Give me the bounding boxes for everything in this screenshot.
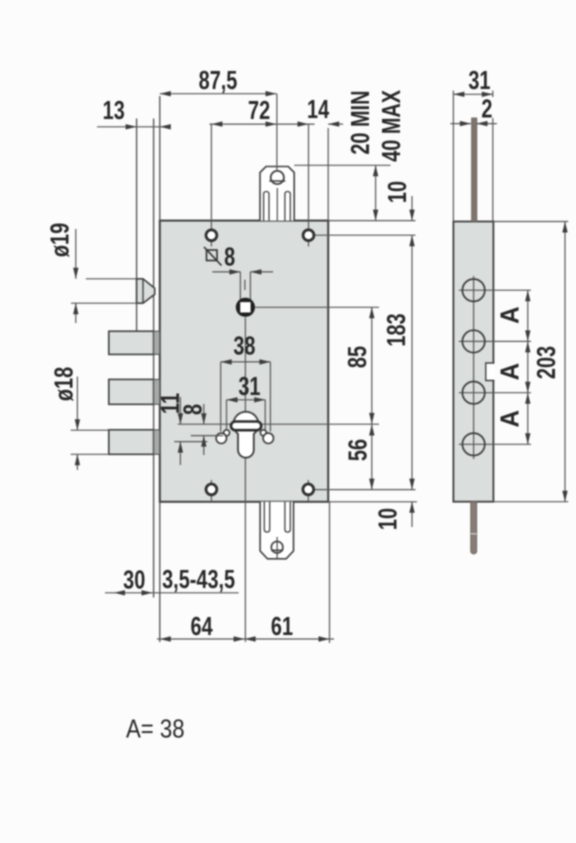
svg-text:13: 13 [103,96,125,125]
bottom tab slot left [264,502,269,532]
svg-text:ø18: ø18 [49,367,78,402]
screw hole bottom-right [303,484,314,495]
right view hole 2 [462,330,484,352]
cylinder wing right [260,430,266,436]
latch bolt [137,279,155,303]
cylinder cam bar [231,422,261,431]
right view hole 4 [462,433,484,455]
top tab hole [271,171,284,184]
svg-text:14: 14 [307,95,329,124]
right view notch [486,363,495,381]
right view body [453,222,493,502]
lock body plate [160,221,328,502]
dim 10 top / 183 / 10 bottom line [411,196,413,221]
deadbolt faceplate overlap 3 [154,430,160,455]
svg-text:72: 72 [248,95,270,124]
dim 203 top ext [493,221,568,223]
screw hole top-right [303,230,314,241]
body top ext horizontal [328,220,415,222]
follower dim line 8 [212,271,240,273]
top tab hole chord [269,180,285,182]
screw hole ext line top-right [308,124,310,246]
follower center dash [244,280,246,290]
square symbol [207,250,218,261]
body edge extension L3 above body [159,96,161,221]
follower vertical centerline [244,318,246,643]
body edge extension L3 below body [159,502,161,642]
svg-text:8: 8 [224,242,235,271]
svg-text:183: 183 [382,313,411,346]
crosshair h line hole 3 [459,392,531,394]
dim 30 line [105,592,239,594]
bottom tab hole chord [271,549,283,551]
svg-text:2: 2 [481,94,492,123]
right view hole 3 [462,382,484,404]
bottom tab plate [260,502,293,559]
top tab plate [260,167,294,221]
screw hole center ext horizontal top [309,234,416,236]
dim 38 line [221,361,271,363]
label 2 background [479,97,495,118]
dim ø18 ext lines [71,429,109,431]
svg-text:31: 31 [468,66,490,95]
top tab slot right [285,192,290,221]
svg-text:A: A [496,306,525,324]
dim 31 right view ext lines [452,91,454,222]
dim ø19 line [75,229,77,279]
screw hole top-left [206,230,217,241]
bottom tab slot right [285,502,290,532]
bottom tab centerline [276,537,278,558]
dim 85/56 vertical line [371,307,373,489]
follower (square spindle hub) [236,298,255,317]
right view vertical centerline [473,276,475,459]
follower square dim ext lines [239,272,241,301]
crosshair h line hole 4 [459,443,531,445]
top tab centerline [276,188,278,221]
follower horizontal centerline [255,306,379,308]
right view hole 1 [462,279,484,301]
svg-text:56: 56 [343,439,372,461]
svg-text:A= 38: A= 38 [126,715,185,744]
deadbolt 1 [109,331,154,354]
crosshair h line hole 2 [459,340,531,342]
screw hole bottom-left [206,484,217,495]
dim ø18 line [76,377,78,431]
dim 2 line [450,123,471,125]
dim 31 ext lines [226,400,228,431]
svg-text:87,5: 87,5 [199,65,238,94]
body bottom ext horizontal [328,501,417,503]
cylinder wing left [224,430,230,436]
svg-text:10: 10 [373,508,402,530]
deadbolt 3 [109,430,154,455]
dim 203 line [564,222,566,502]
svg-text:64: 64 [191,612,213,641]
svg-text:31: 31 [238,372,260,401]
dim 64/61 right ext [329,502,331,643]
svg-text:85: 85 [343,346,372,368]
dim 31 right view line [453,93,492,95]
deadbolt faceplate overlap 2 [154,379,160,404]
screw hole tick bottom-right [307,480,309,502]
dim 87,5 [160,93,277,95]
svg-text:20 MIN: 20 MIN [346,91,375,155]
svg-text:A: A [496,410,525,428]
svg-text:61: 61 [271,612,293,641]
dim 8 (cylinder) [191,435,223,437]
deadbolt 2 [109,379,154,404]
screw hole center ext horizontal bottom [308,489,415,491]
svg-text:203: 203 [532,346,561,379]
bottom tab hole [271,541,283,553]
dim 203 bottom ext [493,501,568,503]
dim A line [527,290,529,444]
faceplate front line L1 [136,119,138,332]
dim 64/61 line [157,638,334,640]
svg-text:30: 30 [123,565,145,594]
svg-text:A: A [496,363,525,381]
dim ø19 ext lines [86,278,137,280]
svg-text:40 MAX: 40 MAX [377,89,406,161]
svg-text:38: 38 [233,331,255,360]
bottom rod [471,502,477,554]
dim 13 [97,126,168,128]
screw hole tick bottom-left [210,480,212,502]
svg-text:3,5-43,5: 3,5-43,5 [162,565,235,594]
svg-text:10: 10 [383,181,412,203]
body right edge ext up [327,128,329,221]
euro cylinder profile [233,412,258,458]
dim 72 / 14 line [210,123,315,125]
svg-text:8: 8 [178,404,207,415]
faceplate back line L2 [153,119,155,598]
top tab slot left [264,192,269,221]
top rod [472,118,477,222]
cylinder horizontal centerline [178,423,379,425]
dim 31 line [227,399,266,401]
dim 20MIN/40MAX ext [294,164,390,166]
screw hole ext line top-left [210,124,212,246]
tab hole ext line up [276,94,278,171]
svg-text:ø19: ø19 [45,223,74,257]
dim 11 [174,441,207,443]
dim 38 ext lines [220,362,222,432]
deadbolt faceplate overlap 1 [154,331,160,354]
crosshair h line hole 1 [459,289,531,291]
